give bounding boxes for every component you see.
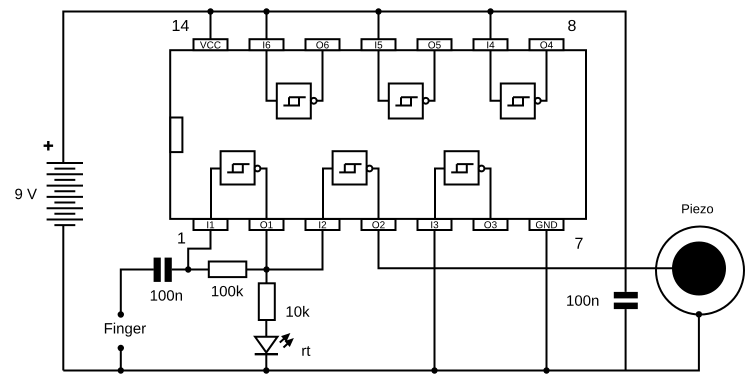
junction dot LED to bottom rail [263, 367, 269, 373]
wire: battery - terminal down to bottom rail [62, 225, 64, 370]
wire: C1 right plate to input node and on to R1 [172, 269, 209, 271]
wire: pin O2 down and right to piezo [379, 230, 673, 268]
pin box GND [530, 219, 564, 230]
junction dot output node (O1/R1/I2/R2) [263, 266, 269, 272]
junction dot at I5 stub on top rail [375, 8, 381, 14]
wire: stub from top rail to pin I6 [266, 12, 268, 40]
wire: stub from top rail to pin I5 [378, 12, 380, 40]
junction dot input node (C1/R1/I1) [185, 266, 191, 272]
schmitt inverter gate U1E (top row, I5/O5) [379, 50, 435, 118]
pin box I5 [362, 39, 396, 50]
capacitor C2 100n (decoupling) [614, 292, 638, 309]
value label 100k (R1) [212, 285, 243, 296]
pin box O2 [362, 219, 396, 230]
schmitt inverter gate U1C (bottom row, I3/O3) [435, 151, 491, 219]
schmitt inverter gate U1D (top row, I4/O4) [491, 50, 547, 118]
wire: stub from top rail to pin I4 [490, 12, 492, 40]
pin box I4 [474, 39, 508, 50]
pin box O1 [250, 219, 284, 230]
value label 100n (C2) [567, 295, 598, 306]
pin box I2 [306, 219, 340, 230]
label Finger [105, 323, 146, 337]
wire: R2 to LED anode [265, 320, 267, 337]
pin box O4 [530, 39, 564, 50]
wire: LED cathode to bottom rail [265, 354, 267, 370]
pin number 1 [178, 232, 185, 243]
junction dot at VCC stub on top rail [207, 8, 213, 14]
pin number 7 [575, 238, 582, 249]
pin number 14 [173, 20, 189, 31]
wire: pin I1 down, left and down to input node [188, 230, 210, 270]
junction dot piezo to riser [696, 311, 702, 317]
junction dot at I6 stub on top rail [263, 8, 269, 14]
pin box O6 [306, 39, 340, 50]
touch contact lower dot [118, 345, 124, 351]
wire: touch contact to capacitor C1 [121, 270, 154, 315]
value label 10k (R2) [287, 306, 310, 317]
schmitt inverter gate U1B (bottom row, I2/O2) [323, 151, 379, 219]
wire: C2 bottom to bottom rail [625, 309, 627, 370]
resistor R1 100k [209, 262, 247, 278]
wire: stub from top rail to pin VCC [210, 12, 212, 40]
wire: pin I3 down to bottom rail [434, 230, 436, 371]
bottom ground rail with right riser to piezo [63, 314, 699, 370]
junction dot at I4 stub on top rail [487, 8, 493, 14]
value label rt (LED colour) [302, 346, 310, 356]
junction dot GND on bottom rail [543, 367, 549, 373]
LED emission arrows [280, 335, 292, 348]
wire: pin O1 down to output node [266, 230, 268, 270]
schmitt inverter gate U1F (top row, I6/O6) [267, 50, 323, 118]
LED D1 (rt) [255, 337, 278, 355]
capacitor C1 100n (coupling) [154, 258, 172, 282]
wire: pin GND down to bottom rail [546, 230, 548, 371]
pin box I1 [194, 219, 228, 230]
pin box I3 [418, 219, 452, 230]
plus symbol of battery [44, 141, 54, 151]
IC notch marker on left edge [170, 118, 182, 153]
schmitt inverter gate U1A (bottom row, I1/O1) [211, 151, 267, 219]
pin number 8 [568, 20, 576, 31]
wire: lower touch contact to bottom rail [120, 348, 122, 371]
pin box I6 [250, 39, 284, 50]
label Piezo [682, 204, 713, 214]
junction dot I3 on bottom rail [431, 367, 437, 373]
battery BT1 9V [47, 163, 83, 225]
wire: output node down to R2 [266, 270, 268, 284]
value label 100n (C1) [151, 290, 182, 301]
wire: top supply rail from battery + across top, down right side to decoupling cap [63, 12, 625, 292]
touch contact upper dot [118, 311, 124, 317]
wire: pin I2 down and left to output node [267, 230, 323, 270]
value label 9 V [15, 189, 37, 200]
IC body U1 hex Schmitt-trigger inverter [170, 50, 586, 219]
pin box O5 [418, 39, 452, 50]
piezo transducer [656, 227, 744, 315]
junction dot touch contact on bottom rail [118, 367, 124, 373]
wire: R1 to output node [246, 269, 266, 271]
resistor R2 10k [259, 283, 275, 320]
pin box O3 [474, 219, 508, 230]
pin box VCC [194, 39, 228, 50]
